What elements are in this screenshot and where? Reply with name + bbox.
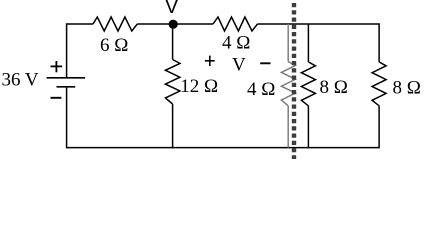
resistor R4 4ohm gray (removed) [281, 24, 295, 148]
wire above 8ohm second [378, 23, 380, 62]
resistor R6 8ohm second [372, 62, 386, 106]
svg-text:V: V [232, 54, 246, 75]
svg-text:6 Ω: 6 Ω [100, 35, 128, 56]
svg-text:8 Ω: 8 Ω [320, 77, 348, 98]
svg-text:8 Ω: 8 Ω [393, 77, 421, 98]
resistor R2 4ohm horizontal [213, 17, 258, 31]
svg-text:4 Ω: 4 Ω [247, 79, 275, 100]
battery plus sign [51, 61, 63, 72]
battery minus sign [51, 97, 62, 99]
cut line (dashed) [292, 3, 296, 160]
wire left below battery [66, 88, 68, 149]
svg-text:V: V [165, 0, 179, 18]
wire above 8ohm first [307, 24, 309, 62]
wire below 8ohm second [378, 106, 380, 149]
wire top segment right [258, 23, 380, 25]
resistor R3 12ohm [165, 60, 180, 105]
minus sign of V across 4ohm [260, 62, 270, 64]
svg-text:12 Ω: 12 Ω [180, 76, 218, 97]
resistor R1 6ohm [93, 17, 137, 31]
wire below 12ohm [172, 104, 174, 148]
wire node V to 12ohm [172, 24, 174, 60]
wire left above battery [66, 23, 68, 77]
battery V1 36V plates [47, 78, 86, 87]
node V dot [169, 20, 178, 29]
resistor R5 8ohm first [301, 62, 315, 106]
svg-text:36 V: 36 V [2, 70, 39, 91]
wire below 8ohm first [307, 106, 309, 149]
plus sign of V across 4ohm [205, 56, 215, 66]
wire top segment left [67, 23, 93, 25]
wire bottom [67, 147, 380, 149]
wire top segment middle [137, 23, 213, 25]
svg-text:4 Ω: 4 Ω [222, 33, 250, 54]
